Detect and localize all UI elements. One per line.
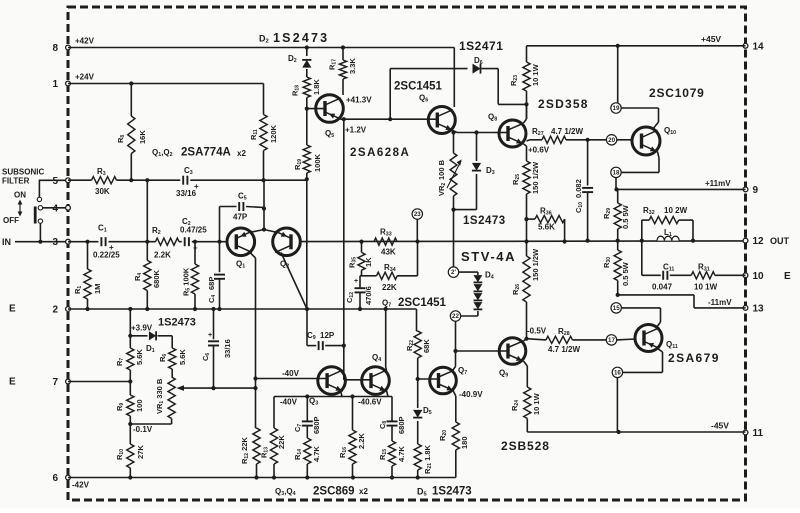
svg-text:STV-4A: STV-4A <box>461 249 516 264</box>
svg-text:-0.1V: -0.1V <box>133 425 153 434</box>
svg-text:+: + <box>109 243 114 252</box>
svg-text:OFF: OFF <box>3 216 19 225</box>
svg-text:5: 5 <box>52 176 58 187</box>
svg-text:1: 1 <box>52 79 58 90</box>
svg-text:R21 1.8K: R21 1.8K <box>423 445 433 474</box>
svg-text:680P: 680P <box>397 416 406 434</box>
svg-text:+45V: +45V <box>701 34 721 44</box>
svg-text:-40.9V: -40.9V <box>459 390 483 399</box>
svg-text:11: 11 <box>753 428 764 439</box>
svg-text:FILTER: FILTER <box>2 177 30 186</box>
svg-text:10: 10 <box>753 271 765 282</box>
svg-text:10 2W: 10 2W <box>664 206 688 215</box>
svg-text:2SA628A: 2SA628A <box>350 147 410 159</box>
svg-text:68K: 68K <box>422 339 431 353</box>
svg-text:1.8K: 1.8K <box>312 79 321 95</box>
svg-text:1M: 1M <box>93 284 102 294</box>
svg-text:E: E <box>9 377 16 388</box>
svg-text:+41.3V: +41.3V <box>346 96 372 105</box>
svg-text:2SA774A: 2SA774A <box>181 147 231 159</box>
svg-text:4.7K: 4.7K <box>312 446 321 462</box>
svg-text:680P: 680P <box>312 416 321 434</box>
svg-text:5.6K: 5.6K <box>538 223 555 232</box>
svg-text:-11mV: -11mV <box>708 298 732 307</box>
svg-text:-40V: -40V <box>280 398 298 407</box>
svg-text:22K: 22K <box>382 283 397 292</box>
svg-text:Q3,Q4: Q3,Q4 <box>275 487 296 497</box>
svg-text:100K: 100K <box>313 153 322 172</box>
svg-text:6: 6 <box>52 473 58 484</box>
svg-text:-40V: -40V <box>282 369 300 378</box>
svg-text:-40.6V: -40.6V <box>358 398 382 407</box>
svg-text:1S2471: 1S2471 <box>459 39 503 53</box>
svg-text:680K: 680K <box>152 269 161 288</box>
svg-text:14: 14 <box>753 41 765 52</box>
svg-text:1K: 1K <box>364 257 373 267</box>
svg-text:SUBSONIC: SUBSONIC <box>2 168 44 177</box>
svg-text:7: 7 <box>52 377 58 388</box>
svg-text:43K: 43K <box>381 248 396 257</box>
svg-text:16: 16 <box>614 370 621 377</box>
svg-text:23: 23 <box>414 211 421 218</box>
svg-text:470/6: 470/6 <box>364 286 373 305</box>
svg-text:0.22/25: 0.22/25 <box>93 251 120 260</box>
svg-text:+24V: +24V <box>75 73 95 82</box>
svg-text:0.47/25: 0.47/25 <box>180 226 207 235</box>
svg-text:0.047: 0.047 <box>652 283 673 292</box>
svg-text:-42V: -42V <box>72 481 90 490</box>
svg-text:-45V: -45V <box>711 421 729 431</box>
svg-text:0.5 5W: 0.5 5W <box>621 204 630 229</box>
svg-text:150 1/2W: 150 1/2W <box>531 248 540 281</box>
svg-text:+11mV: +11mV <box>705 179 731 188</box>
svg-text:+1.2V: +1.2V <box>345 126 367 135</box>
svg-text:+42V: +42V <box>75 37 95 46</box>
svg-text:17: 17 <box>608 337 615 344</box>
svg-text:19: 19 <box>613 105 620 112</box>
svg-text:30K: 30K <box>95 187 110 196</box>
svg-text:15: 15 <box>613 305 620 312</box>
svg-text:4.7 1/2W: 4.7 1/2W <box>551 127 583 136</box>
svg-text:120K: 120K <box>269 124 278 143</box>
svg-text:E: E <box>9 304 16 315</box>
svg-text:2SC1451: 2SC1451 <box>398 297 447 309</box>
svg-text:2SC869: 2SC869 <box>313 486 355 498</box>
svg-text:2: 2 <box>52 305 58 316</box>
svg-text:2.2K: 2.2K <box>357 433 366 449</box>
svg-text:R12 22K: R12 22K <box>240 437 250 464</box>
svg-text:12: 12 <box>753 236 765 247</box>
svg-text:27K: 27K <box>136 445 145 459</box>
svg-text:OUT: OUT <box>770 236 790 246</box>
svg-text:3: 3 <box>52 237 58 248</box>
svg-text:22K: 22K <box>277 435 286 449</box>
svg-text:10 1W: 10 1W <box>531 63 540 86</box>
svg-text:10 1W: 10 1W <box>532 392 541 415</box>
svg-text:-0.5V: -0.5V <box>527 327 547 336</box>
svg-text:4: 4 <box>52 203 58 214</box>
svg-text:20: 20 <box>608 137 615 144</box>
svg-text:2SA679: 2SA679 <box>668 351 720 365</box>
svg-text:0.082: 0.082 <box>574 179 583 198</box>
svg-text:9: 9 <box>753 185 759 196</box>
svg-text:10 1W: 10 1W <box>694 283 718 292</box>
svg-text:2': 2' <box>451 269 456 276</box>
svg-text:x2: x2 <box>237 149 246 158</box>
svg-text:8: 8 <box>52 43 58 54</box>
svg-text:1S2473: 1S2473 <box>158 317 196 329</box>
svg-text:x2: x2 <box>359 487 368 496</box>
svg-text:+3.9V: +3.9V <box>131 324 153 333</box>
svg-text:ON: ON <box>14 191 26 200</box>
svg-text:2.2K: 2.2K <box>154 251 171 260</box>
svg-text:+: + <box>208 332 212 339</box>
svg-text:33/16: 33/16 <box>223 339 232 358</box>
svg-text:2SC1079: 2SC1079 <box>649 86 705 100</box>
svg-text:5.6K: 5.6K <box>178 349 187 365</box>
svg-text:22: 22 <box>452 313 459 320</box>
svg-text:E: E <box>784 271 791 282</box>
svg-text:1S2473: 1S2473 <box>463 215 506 227</box>
svg-text:47P: 47P <box>233 213 248 222</box>
svg-text:3.3K: 3.3K <box>348 58 357 74</box>
svg-text:+0.6V: +0.6V <box>528 146 550 155</box>
svg-text:VR1 330 B: VR1 330 B <box>155 378 165 414</box>
svg-text:1S2473: 1S2473 <box>432 486 472 498</box>
svg-text:1S2473: 1S2473 <box>273 31 329 45</box>
svg-text:68P: 68P <box>207 277 216 290</box>
svg-text:180: 180 <box>460 436 469 449</box>
svg-text:+: + <box>354 278 358 285</box>
svg-text:100: 100 <box>135 399 144 412</box>
svg-text:0.5 5W: 0.5 5W <box>621 261 630 286</box>
svg-text:4.7 1/2W: 4.7 1/2W <box>548 345 580 354</box>
svg-text:2SC1451: 2SC1451 <box>394 81 443 93</box>
svg-text:Q1,Q2: Q1,Q2 <box>152 148 173 158</box>
svg-text:2SD358: 2SD358 <box>538 97 589 111</box>
svg-text:150 1/2W: 150 1/2W <box>531 161 540 194</box>
svg-text:100 B: 100 B <box>437 159 446 180</box>
svg-text:18: 18 <box>613 170 620 177</box>
svg-text:5.6K: 5.6K <box>135 349 144 365</box>
svg-text:12P: 12P <box>320 331 335 340</box>
svg-text:IN: IN <box>2 237 11 247</box>
svg-text:4.7K: 4.7K <box>397 446 406 462</box>
svg-text:2SB528: 2SB528 <box>501 439 550 453</box>
svg-text:16K: 16K <box>138 130 147 144</box>
svg-text:R5 100K: R5 100K <box>182 267 192 296</box>
svg-text:13: 13 <box>753 303 765 314</box>
svg-text:+: + <box>194 182 199 191</box>
